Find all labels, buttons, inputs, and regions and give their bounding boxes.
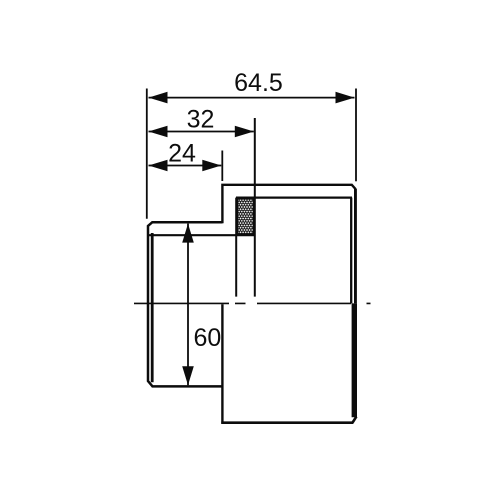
arrow 60 down [182, 366, 194, 385]
arrow 60 up [182, 224, 194, 243]
centerline (axis, dash-dot) [134, 302, 371, 304]
svg-text:24: 24 [168, 140, 196, 168]
dimension line 64.5 [149, 98, 355, 386]
step edge (bottom half) [221, 304, 223, 423]
arrow 64.5 left [149, 92, 168, 104]
step edge (top half) + large body top silhouette [222, 185, 355, 224]
arrowheads [149, 92, 355, 385]
socket bore edge left (below solder ring) [235, 198, 237, 297]
arrow 64.5 right [336, 92, 355, 104]
dimension line 32 [149, 131, 254, 133]
extension line for 24 dim [221, 151, 223, 182]
svg-text:60: 60 [194, 324, 222, 352]
socket bore edge right / extension of 32 dim (also solder ring right wall) [254, 118, 256, 297]
solder ring (cross-hatched section) [237, 199, 254, 235]
fitting chamfer edge line (vertical, right) [350, 198, 352, 304]
pipe chamfer edge line (vertical, left) [148, 118, 352, 382]
arrow 32 right [235, 126, 254, 138]
extension line right (64.5) [355, 89, 357, 182]
arrow 24 left [149, 160, 168, 172]
svg-text:64.5: 64.5 [234, 69, 283, 97]
arrow 24 right [202, 160, 221, 172]
arrow 32 left [149, 126, 168, 138]
dimension line 60 (vertical) [187, 224, 189, 386]
large body bottom silhouette [221, 421, 353, 424]
outline: small pipe top silhouette [148, 185, 356, 424]
svg-text:32: 32 [187, 106, 215, 134]
dimension line 24 [149, 165, 222, 167]
large body right edge (bottom half, merged band) [352, 303, 357, 417]
large body right face (top half) [354, 189, 357, 304]
socket inner wall line (top half) [236, 197, 352, 199]
extension line left (shared by 64.5 / 32 / 24) [147, 89, 356, 219]
bottom-right corner chamfer [353, 417, 357, 423]
pipe inner bore line (section, top half) [148, 234, 255, 236]
